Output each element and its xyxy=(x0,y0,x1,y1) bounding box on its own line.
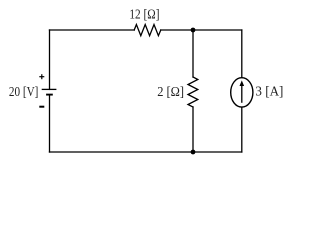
wire bottom rail xyxy=(50,151,242,153)
battery V1 short plate (-) xyxy=(46,94,53,96)
current source I1 circle xyxy=(231,78,253,107)
wire left branch upper (battery + terminal to top-left corner) xyxy=(49,30,51,89)
svg-text:12 [Ω]: 12 [Ω] xyxy=(129,7,159,22)
wire right branch upper (top-right corner to current source) xyxy=(241,30,243,77)
resistor R1 12 ohm (horizontal zigzag) xyxy=(134,25,161,36)
wire top-left to resistor R1 xyxy=(50,29,135,31)
wire middle branch upper (top node to resistor R2) xyxy=(192,30,194,77)
svg-text:2 [Ω]: 2 [Ω] xyxy=(157,85,184,100)
svg-text:3 [A]: 3 [A] xyxy=(255,85,283,100)
resistor R2 2 ohm (vertical zigzag) xyxy=(188,77,198,107)
battery V1 long plate (+) xyxy=(42,88,57,90)
wire right branch lower (current source to bottom-right corner) xyxy=(241,108,243,152)
battery minus sign xyxy=(39,106,44,108)
wire resistor R1 to top-right corner xyxy=(161,29,242,31)
wire left branch lower (battery - terminal to bottom-left corner) xyxy=(49,95,51,152)
wire middle branch lower (resistor R2 to bottom node) xyxy=(192,107,194,152)
battery plus sign xyxy=(39,74,44,79)
current source I1 arrow shaft xyxy=(241,85,243,103)
node dot top (junction of R1/R2) xyxy=(191,28,196,33)
node dot bottom (junction of R2/bottom rail) xyxy=(191,150,196,155)
current source I1 arrow head xyxy=(240,80,245,86)
svg-text:20 [V]: 20 [V] xyxy=(9,85,39,100)
